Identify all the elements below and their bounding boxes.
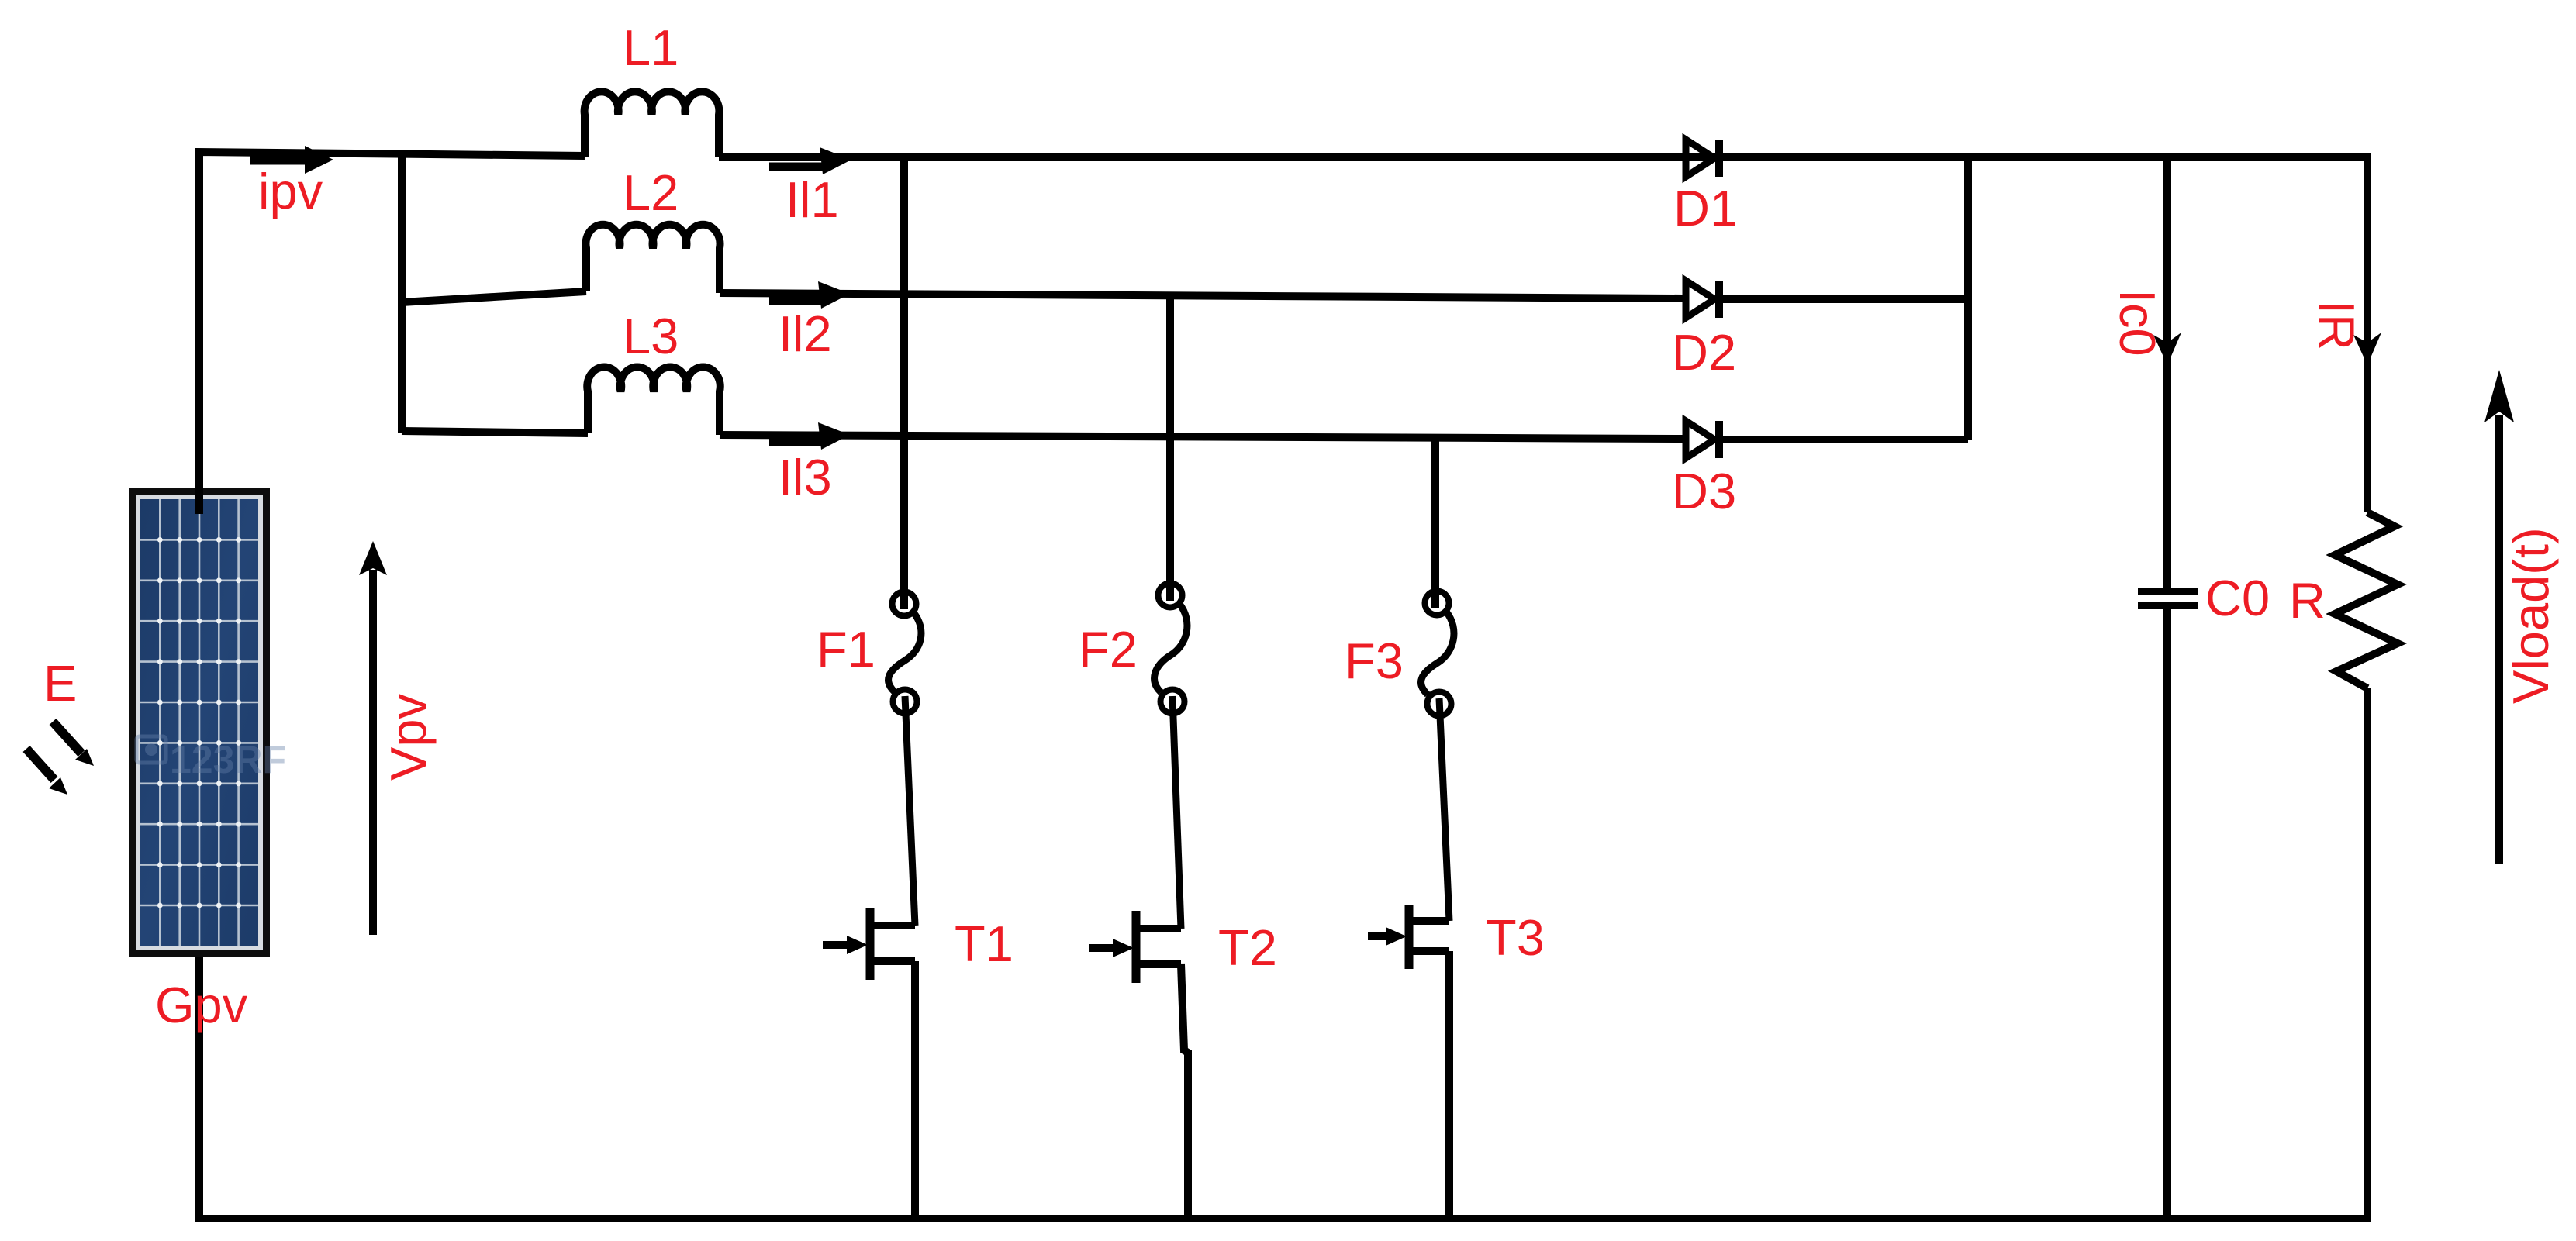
diode D1 (1686, 140, 1719, 177)
wire: phase1 drop from top bus to fuse F1 (900, 156, 908, 609)
svg-text:L1: L1 (623, 19, 679, 76)
wire: L3 input lead (402, 431, 588, 433)
transistor T2 (1089, 911, 1181, 983)
wire: capacitor branch bottom (2163, 608, 2171, 1219)
capacitor C0 (2138, 591, 2198, 605)
wire: PV negative lead and bottom bus to resistor branch (199, 688, 2367, 1219)
irradiance arrow E2 (26, 749, 67, 795)
wire: Il3 line from L3 to diode D3 (720, 435, 1683, 439)
svg-text:D1: D1 (1673, 180, 1738, 236)
voltage arrow Vload(t) (2484, 370, 2514, 864)
diode D3 (1686, 421, 1719, 458)
transistor T1 (823, 908, 915, 980)
svg-text:E: E (43, 655, 77, 712)
svg-text:D3: D3 (1672, 463, 1736, 519)
wire: F3 to T3 drain (1439, 698, 1449, 921)
wire: T3 source to bottom bus (1445, 951, 1453, 1219)
inductor L3 (587, 367, 720, 435)
wire: capacitor branch top (2163, 157, 2171, 588)
svg-text:Vload(t): Vload(t) (2502, 527, 2559, 704)
svg-text:ipv: ipv (258, 163, 323, 219)
wire: inductor feeder branch vertical (398, 153, 406, 433)
irradiance arrow E1 (53, 722, 94, 766)
wire: stub into PV panel (195, 488, 203, 514)
svg-text:Ic0: Ic0 (2109, 289, 2166, 357)
wire: Il1 line from L1 to output corner and down to resistor (719, 157, 2367, 512)
current arrow Ic0 (2153, 333, 2181, 365)
svg-text:123RF: 123RF (170, 738, 286, 781)
svg-text:IR: IR (2308, 300, 2365, 350)
wire: phase3 drop from Il3 line to fuse F3 (1431, 439, 1439, 608)
svg-text:F1: F1 (817, 621, 875, 677)
inductor L1 (585, 91, 720, 157)
inductor L2 (586, 225, 720, 293)
svg-text:T1: T1 (955, 915, 1013, 972)
fuse F2 (1155, 584, 1187, 714)
svg-text:T2: T2 (1218, 919, 1277, 976)
fuse F1 (889, 592, 921, 714)
svg-text:D2: D2 (1672, 324, 1736, 381)
wire: T2 source to bottom bus (1181, 964, 1188, 1219)
resistor R (2335, 512, 2398, 688)
wire: Il2 line from L2 to diode D2 (720, 293, 1683, 298)
current arrow Il2 (769, 281, 850, 309)
wire: L2 input lead (402, 291, 586, 302)
transistor T3 (1368, 905, 1449, 969)
wire: phase2 drop from Il2 line to fuse F2 (1166, 296, 1174, 601)
current arrow ipv (250, 146, 333, 174)
svg-text:L2: L2 (623, 164, 679, 221)
fuse F3 (1421, 591, 1454, 716)
svg-text:R: R (2289, 572, 2326, 629)
wire: output bus vertical joining D1 D2 D3 (1964, 157, 1972, 440)
wire: D3 to output bus (1722, 436, 1968, 443)
svg-text:Il1: Il1 (786, 171, 839, 228)
svg-text:T3: T3 (1486, 909, 1545, 966)
PV module Gpv (133, 491, 287, 954)
wire: F1 to T1 drain (905, 696, 915, 926)
svg-text:F3: F3 (1345, 633, 1404, 689)
wire: F2 to T2 drain (1172, 696, 1181, 929)
svg-text:Il3: Il3 (779, 449, 832, 505)
svg-text:Il2: Il2 (779, 305, 832, 362)
svg-text:F2: F2 (1079, 621, 1138, 677)
svg-text:C0: C0 (2205, 570, 2270, 626)
svg-text:L3: L3 (623, 308, 679, 364)
current arrow IR (2353, 333, 2381, 365)
wire: D2 to output bus (1722, 295, 1968, 303)
current arrow Il1 (769, 147, 851, 174)
diode D2 (1686, 281, 1719, 318)
svg-text:Gpv: Gpv (155, 977, 248, 1033)
current arrow Il3 (769, 422, 850, 450)
voltage arrow Vpv (359, 541, 387, 935)
svg-text:Vpv: Vpv (380, 693, 437, 781)
wire: PV positive lead up to top-left corner and input bus to L1 (199, 152, 585, 514)
wire: T1 source to bottom bus (911, 961, 919, 1219)
